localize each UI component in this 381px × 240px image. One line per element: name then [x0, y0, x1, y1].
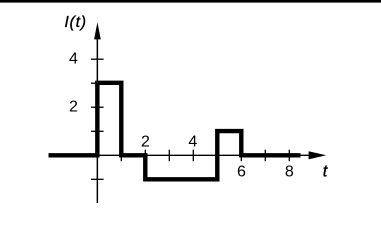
x tick t=7 [264, 150, 266, 162]
x tick t=4 [192, 150, 194, 162]
svg-text:I(t): I(t) [64, 14, 86, 31]
svg-text:6: 6 [237, 164, 246, 181]
x tick t=1 [120, 150, 122, 162]
y tick I=3 [91, 82, 104, 84]
x tick t=2 [144, 150, 146, 162]
svg-text:4: 4 [188, 133, 197, 150]
y-axis I(t) [96, 39, 98, 204]
top border rule [0, 0, 381, 3]
y tick I=4 [91, 58, 104, 60]
y tick I=-1 [91, 178, 104, 180]
svg-text:2: 2 [141, 133, 150, 150]
x tick t=3 [168, 150, 170, 162]
svg-text:2: 2 [69, 98, 78, 115]
y tick I=1 [91, 130, 104, 132]
x tick t=6 [240, 150, 242, 162]
x-axis t [97, 154, 309, 156]
y tick I=2 [91, 106, 104, 108]
svg-text:8: 8 [285, 164, 294, 181]
x-axis arrowhead [309, 151, 327, 159]
svg-text:4: 4 [69, 50, 78, 67]
waveform I(t) step trace [49, 83, 301, 180]
svg-text:t: t [323, 162, 329, 180]
y-axis arrowhead [94, 22, 101, 39]
x tick t=8 [288, 150, 290, 162]
x tick t=5 [216, 150, 218, 162]
